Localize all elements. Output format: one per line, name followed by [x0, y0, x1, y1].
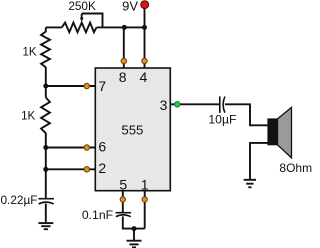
svg-text:5: 5: [119, 177, 127, 193]
capacitor C3 10uF: [220, 96, 225, 113]
wire pin 1 down: [144, 191, 146, 229]
svg-text:10µF: 10µF: [208, 113, 236, 127]
resistor R1 1K: [41, 27, 50, 67]
svg-text:6: 6: [98, 138, 106, 154]
terminal pin 2: [84, 167, 89, 172]
speaker LS1: [268, 107, 292, 157]
ground (center): [127, 241, 142, 248]
svg-text:250K: 250K: [68, 0, 96, 13]
wire node C to pin 2: [46, 168, 96, 170]
wire pin 3 output: [170, 103, 220, 105]
ground (right): [244, 180, 256, 188]
wire top-left from R1 to pot: [46, 26, 62, 28]
terminal pin 1: [142, 197, 147, 202]
capacitor C1 0.22uF: [38, 199, 54, 204]
node output (green): [175, 102, 180, 107]
svg-text:0.22µF: 0.22µF: [1, 193, 38, 207]
svg-text:3: 3: [160, 97, 168, 113]
wire C2 bottom: [123, 216, 145, 228]
terminal pin 4: [142, 58, 147, 63]
terminal pin 5: [120, 197, 125, 202]
junction top pin4: [142, 25, 147, 30]
ground (left): [38, 223, 53, 229]
svg-text:0.1nF: 0.1nF: [82, 208, 113, 222]
svg-text:7: 7: [98, 78, 106, 94]
svg-text:1K: 1K: [22, 46, 36, 58]
junction top pin8: [122, 25, 127, 30]
svg-text:9V: 9V: [122, 0, 138, 14]
node A junction: [43, 84, 48, 89]
terminal pin 7: [84, 83, 89, 88]
op IC 555 U1: [95, 68, 170, 191]
svg-text:2: 2: [98, 160, 106, 176]
wire node B to pin 6: [46, 147, 96, 149]
wire speaker bottom to ground: [250, 143, 268, 180]
potentiometer wiper arrow: [80, 14, 84, 22]
wire R2 down to C1: [45, 133, 47, 199]
wire node A to pin 7: [46, 85, 96, 87]
wire node D to ground: [133, 229, 135, 241]
wire 9V supply to pin 4: [144, 6, 146, 68]
wire R1 to node A: [45, 67, 47, 86]
wire wiper to output: [82, 14, 103, 28]
node C junction (pin 2): [43, 167, 48, 172]
wire C1 to ground: [45, 204, 47, 224]
wire pin 8 branch: [123, 27, 125, 68]
wire top to supply: [97, 26, 145, 28]
resistor R2 1K: [41, 86, 50, 133]
svg-text:1: 1: [141, 177, 149, 193]
svg-text:555: 555: [121, 122, 143, 137]
svg-text:4: 4: [140, 69, 148, 85]
wire C3 to speaker top: [225, 104, 268, 125]
node B junction (pin 6): [43, 145, 48, 150]
svg-text:8: 8: [119, 69, 127, 85]
terminal pin 6: [84, 145, 89, 150]
terminal pin 8: [121, 58, 126, 63]
svg-text:1K: 1K: [21, 111, 35, 123]
wire pin 5 down: [122, 191, 124, 213]
node D junction: [132, 226, 137, 231]
svg-text:8Ohm: 8Ohm: [279, 161, 312, 175]
supply 9V node: [141, 1, 149, 9]
potentiometer 250K: [62, 23, 97, 33]
capacitor C2 0.1nF: [116, 213, 131, 217]
